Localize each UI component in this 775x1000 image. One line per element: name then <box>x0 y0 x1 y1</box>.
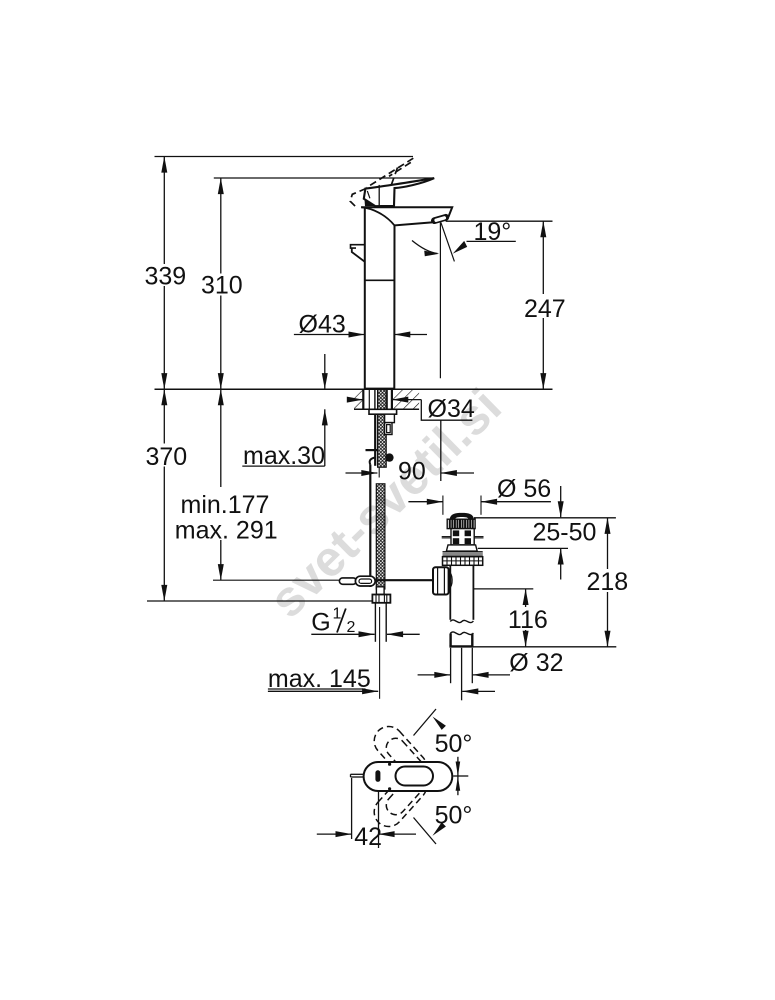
svg-text:max. 145: max. 145 <box>268 665 371 693</box>
svg-text:218: 218 <box>587 568 629 596</box>
svg-text:max. 291: max. 291 <box>175 517 278 545</box>
svg-text:90: 90 <box>398 458 426 486</box>
svg-text:310: 310 <box>201 272 243 300</box>
svg-text:1: 1 <box>333 606 342 623</box>
svg-text:50°: 50° <box>435 802 473 830</box>
svg-text:370: 370 <box>146 443 188 471</box>
svg-text:max.30: max.30 <box>243 442 325 470</box>
svg-text:G: G <box>311 609 330 637</box>
svg-text:Ø 56: Ø 56 <box>497 475 551 503</box>
svg-text:2: 2 <box>347 619 356 636</box>
svg-text:Ø34: Ø34 <box>428 395 475 423</box>
svg-text:116: 116 <box>508 606 548 634</box>
svg-text:Ø 32: Ø 32 <box>509 649 563 677</box>
svg-text:247: 247 <box>524 295 566 323</box>
svg-text:25-50: 25-50 <box>533 519 597 547</box>
svg-text:Ø43: Ø43 <box>299 311 346 339</box>
svg-text:42: 42 <box>354 823 382 851</box>
svg-text:19°: 19° <box>474 218 512 246</box>
svg-text:min.177: min.177 <box>181 491 270 519</box>
svg-text:50°: 50° <box>435 730 473 758</box>
svg-text:339: 339 <box>145 263 187 291</box>
